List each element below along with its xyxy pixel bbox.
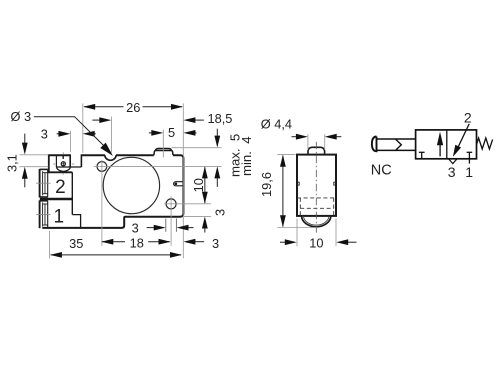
screw block bottom line [48,171,73,173]
valve box divider [446,130,448,159]
hole 2 edge extension lines [165,219,167,232]
mounting hole upper left [97,162,107,172]
hole 1 centerlines [94,165,222,167]
adjusting screw slot [62,155,64,159]
svg-text:2: 2 [464,109,472,125]
plunger actuator rod [377,139,416,150]
plunger chevron [396,139,402,150]
extension lines 3,1 [19,154,48,156]
flow arrow up left box [437,132,443,157]
svg-text:1: 1 [54,206,65,227]
front hidden lines [297,198,336,216]
front dome bottom [302,216,331,227]
dimension max5 min4 [214,129,220,187]
svg-text:3: 3 [212,236,219,251]
valve body top edge right of button, right edge, bottom with step [42,155,183,228]
valve body top edge left of slot [49,154,70,156]
adjusting screw pocket [56,155,81,171]
svg-text:10: 10 [309,235,323,250]
svg-text:Ø 4,4: Ø 4,4 [261,117,292,132]
extension line button top right [172,147,222,149]
svg-text:26: 26 [126,100,140,115]
dimension 10 vertical right [202,166,208,203]
extension line notch center [111,117,113,153]
plunger cap [372,137,377,152]
front centerline [315,142,317,233]
front side hole ticks [297,182,300,185]
svg-text:3,1: 3,1 [4,154,19,172]
dimension 3 vertical right [202,217,208,233]
spring return [477,138,493,149]
side pocket on right edge [174,182,184,186]
port 1 centerline [36,214,51,216]
svg-text:Ø 3: Ø 3 [11,109,32,124]
extension line button center [162,130,164,158]
port 1 barb fitting [40,200,48,228]
blocked port T left box [419,152,425,159]
svg-text:19,6: 19,6 [259,172,274,197]
dimension 10 front [280,239,357,245]
extension lines 19,6 [277,154,295,156]
port 2 centerline [36,182,51,184]
extension line x=82.8 [82,103,84,152]
mounting slot on body top [70,154,81,167]
chamber right wall [71,172,73,214]
svg-text:NC: NC [371,162,392,178]
extension line left edge bottom [49,231,51,259]
svg-text:2: 2 [55,177,66,198]
extension line right edge (long) [182,103,184,258]
svg-text:1: 1 [465,164,473,180]
mounting hole lower right [166,199,176,209]
svg-text:35: 35 [69,236,83,251]
front body rectangle [297,155,336,216]
extension line body bottom right [184,215,211,217]
extension lines O4,4 [307,134,309,150]
svg-text:18: 18 [130,235,144,250]
notch groove O3 on top edge [105,155,116,160]
flow path 2 to 3 diagonal [453,124,469,157]
svg-text:18,5: 18,5 [208,111,233,126]
screw centerlines [62,152,64,154]
dimension 18,5 [92,117,203,123]
svg-text:3: 3 [132,220,139,235]
adjusting screw head circle [61,162,65,166]
dimension 35 [50,252,182,258]
svg-text:3: 3 [212,209,227,216]
internal step below chamber 1 [72,215,80,228]
dimension 3,1 vertical [22,134,28,188]
svg-text:min. 4: min. 4 [239,136,254,176]
extension line slot left [69,131,71,152]
svg-text:3: 3 [448,164,456,180]
svg-text:10: 10 [191,178,206,192]
valve box [416,130,477,159]
hole 2 centerlines [164,203,211,205]
svg-text:5: 5 [168,125,175,140]
front plunger [308,147,325,154]
actuator button bump [154,149,173,156]
roller circle [103,157,159,213]
dimension 5 [149,130,197,136]
svg-text:3: 3 [41,127,48,142]
port 2 barb fitting [40,169,48,197]
body left edge of screw block [48,154,50,172]
chamber divider between port 2 and port 1 [40,198,73,200]
dimension 19,6 [280,155,286,228]
dimension 18 [101,239,170,245]
valve body top edge between slot and notch [81,154,105,156]
valve body top edge between notch and button [116,154,154,156]
extension lines 10 front [296,219,298,247]
blocked port 1 T [467,152,473,163]
dimension 3 bottom right [183,239,204,245]
dimension 26 [83,104,183,110]
exhaust port 3 chevron [449,159,457,163]
